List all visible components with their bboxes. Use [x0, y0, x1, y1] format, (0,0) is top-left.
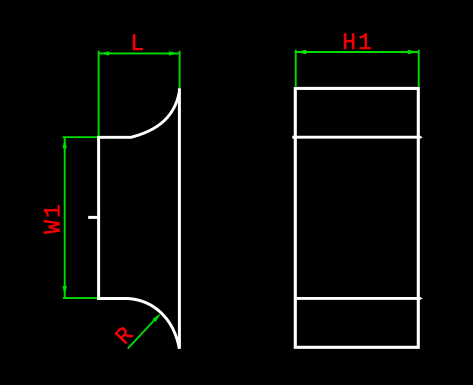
part outline left view: top edge with flare curve: [97, 92, 179, 138]
dimension W1: top extension line: [63, 136, 98, 138]
dimension H1: left arrowhead: [296, 50, 307, 54]
part outline left view: left edge: [97, 136, 100, 300]
svg-text:H1: H1: [342, 30, 374, 56]
svg-text:L: L: [130, 31, 144, 57]
part outline right view: rectangle: [295, 88, 418, 347]
dimension L: dimension line: [99, 52, 180, 54]
part outline right view: lower divider line: [295, 297, 420, 300]
dimension W1: top arrowhead: [63, 138, 67, 149]
svg-text:W1: W1: [41, 202, 67, 234]
dimension L: right arrowhead: [169, 51, 180, 55]
dimension H1: dimension line: [296, 51, 419, 53]
part outline right view: upper divider line: [292, 136, 420, 139]
dimension L: left extension line: [98, 51, 100, 136]
dimension L: right extension line: [179, 51, 181, 89]
dimension H1: right arrowhead: [408, 50, 419, 54]
dimension W1: bottom arrowhead: [63, 286, 67, 297]
upper divider right tip: [420, 136, 422, 139]
lower divider right tip: [420, 297, 422, 300]
dimension W1: dimension line: [64, 138, 66, 298]
dimension R: arrowhead: [153, 313, 161, 322]
part outline left view: right edge: [178, 88, 181, 349]
dimension H1: right extension line: [418, 50, 420, 87]
part outline left view: small notch dash: [88, 216, 97, 219]
dimension L: left arrowhead: [99, 51, 110, 55]
part outline left view: bottom edge with corner radius curve: [97, 299, 179, 349]
svg-text:R: R: [111, 322, 140, 350]
dimension H1: left extension line: [295, 50, 297, 87]
dimension W1: bottom extension line: [63, 297, 97, 299]
dimension R: leader line: [128, 315, 159, 348]
